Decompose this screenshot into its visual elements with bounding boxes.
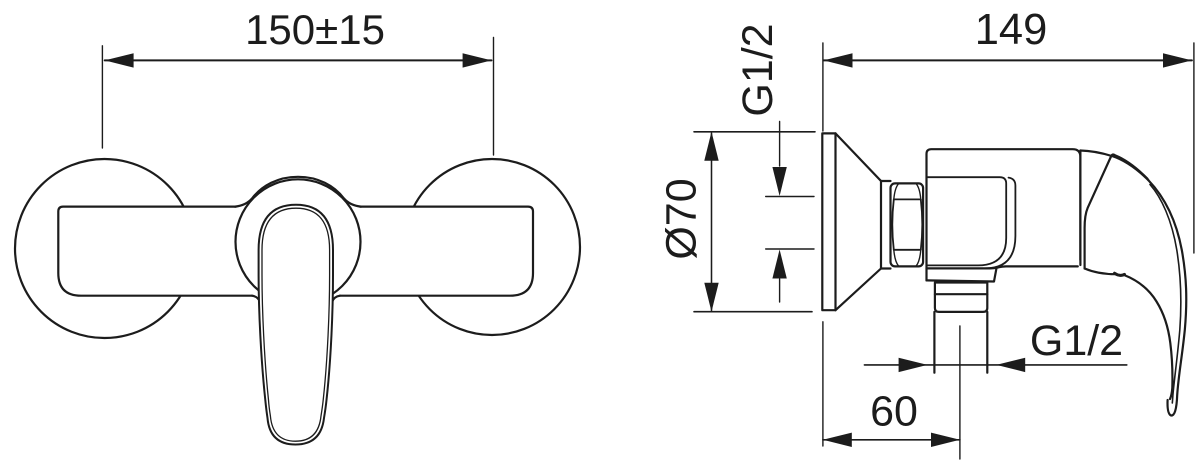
dimension 150±15 right extension line [493, 38, 495, 156]
escutcheon plate (side view) [822, 133, 835, 310]
dimension 149 line [824, 59, 1192, 61]
Ø70 top extension line [694, 131, 815, 133]
hex nut top chamfer arcs [894, 184, 921, 200]
dimension 150±15 line [105, 59, 492, 61]
handle thumb wedge left edge [1085, 157, 1111, 269]
dimension 60 line [823, 439, 960, 441]
cartridge escutcheon circle (front view) [236, 179, 361, 304]
outlet collar band 2 (nut) [935, 294, 987, 312]
handle collar top arc [1080, 151, 1148, 181]
svg-text:149: 149 [975, 6, 1048, 54]
handle blade outer edge [1148, 180, 1186, 415]
G1/2 wall thread leader lower line [779, 279, 781, 302]
handle bottom outline / tail left edge [1085, 269, 1173, 400]
hex nut upper facet line [894, 198, 921, 200]
thread pipe between cone and nut [881, 181, 891, 269]
G1/2 outlet right-pointing arrowhead [899, 358, 928, 372]
dimension 149 right arrowhead [1163, 53, 1192, 67]
handle thumb wedge apex and right edge [1111, 155, 1148, 179]
hex nut lower facet line [894, 249, 921, 251]
dimension 150±15 left extension line [101, 46, 103, 148]
dimension 150±15 left arrowhead [105, 53, 134, 67]
left escutcheon circle (front view) [15, 159, 194, 338]
right escutcheon circle (front view) [404, 159, 580, 335]
lever handle (front view) outer [259, 205, 333, 445]
outlet flange top edge and body bottom edge [927, 266, 1078, 268]
G1/2 wall thread leader upper line [779, 122, 781, 167]
cartridge dome (front view) [235, 177, 361, 207]
handle body-joint vertical line [1079, 151, 1081, 261]
dimension 149 left arrowhead [824, 53, 853, 67]
lever handle (front view) inner line [262, 208, 330, 441]
svg-text:150±15: 150±15 [245, 6, 385, 53]
Ø70 up arrowhead [704, 132, 718, 161]
Ø70 down arrowhead [704, 283, 718, 312]
G1/2 outlet left-pointing arrowhead [996, 358, 1025, 372]
hex nut barrel left arc [892, 199, 894, 249]
G1/2 outlet dimension line [864, 364, 1126, 366]
hex nut barrel right arc [921, 199, 923, 249]
wall line above cone (149 left extension) [822, 43, 824, 131]
body inner contour line 2 [985, 178, 1015, 269]
outlet collar band 1 [935, 283, 987, 295]
body (front view) rounded bar [58, 207, 533, 296]
dimension 60 right arrowhead [931, 433, 960, 447]
Ø70 bottom extension line [694, 311, 812, 313]
escutcheon cone (side view) [836, 133, 882, 310]
outlet pipe center line [959, 326, 961, 459]
svg-text:G1/2: G1/2 [734, 23, 782, 116]
outlet thread pipe [934, 312, 987, 373]
body outline right part [340, 207, 533, 296]
wall line below cone (60 left extension) [822, 322, 824, 446]
outlet flange bottom [927, 269, 997, 282]
hex nut (side view) outline [891, 183, 924, 266]
G1/2 wall thread down arrowhead [772, 167, 786, 196]
Ø70 dimension line [711, 133, 713, 311]
dimension 150±15 right arrowhead [463, 53, 492, 67]
G1/2 wall thread upper tick [766, 196, 814, 198]
valve body (side view) outline [927, 149, 1081, 280]
dimension 149 right extension line [1193, 43, 1195, 253]
G1/2 wall thread up arrowhead [772, 250, 786, 279]
body bottom fillets at lever [252, 296, 260, 302]
dimension 60 left arrowhead [823, 433, 852, 447]
hex nut bottom chamfer arcs [894, 250, 921, 266]
G1/2 wall thread lower tick [766, 248, 814, 250]
body outline left part [58, 207, 252, 296]
handle bottom notch [1115, 273, 1125, 275]
handle blade inner line [1150, 185, 1181, 404]
svg-text:Ø70: Ø70 [658, 178, 706, 259]
svg-text:G1/2: G1/2 [1030, 317, 1123, 365]
svg-text:60: 60 [870, 388, 918, 436]
body inner contour line 1 [927, 177, 1007, 265]
